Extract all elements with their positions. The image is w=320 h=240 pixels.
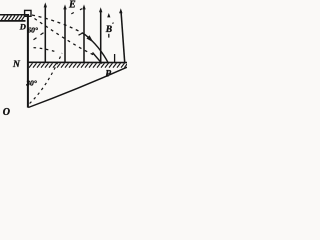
stray dash b2a <box>34 38 37 40</box>
mid surface line <box>28 61 128 63</box>
mid surface hatching <box>29 63 127 67</box>
trajectory C dashed flat <box>34 48 58 53</box>
solid line from O to right edge <box>28 67 127 107</box>
small dash near E <box>71 13 74 14</box>
svg-text:O: O <box>3 107 10 118</box>
svg-text:P: P <box>105 70 111 80</box>
field line L3 <box>83 7 85 62</box>
stray dash b2c <box>79 33 83 35</box>
arrowhead L4 <box>99 7 102 12</box>
pole (vertical rod D-N-O) <box>27 14 29 108</box>
B dashed arrow head <box>107 13 110 17</box>
speck near B <box>112 22 113 25</box>
svg-text:30°: 30° <box>25 78 37 87</box>
ceiling top line <box>0 14 29 16</box>
B arrow stem dot2 <box>108 34 110 38</box>
trajectory A solid end <box>85 34 109 63</box>
ceiling hatching <box>1 16 25 21</box>
arrowhead L2 <box>63 4 66 9</box>
ceiling bottom line <box>0 20 26 22</box>
arrowhead L3 <box>82 4 85 9</box>
field line L5 (slanted right edge) <box>121 11 125 62</box>
field line L4 <box>100 10 102 62</box>
svg-text:B: B <box>105 25 112 35</box>
small dash right of E <box>80 9 82 10</box>
short field segment L6 <box>114 54 116 62</box>
field line L1 <box>44 5 46 62</box>
arrowhead L1 <box>44 2 47 7</box>
trajectory A dashed part <box>32 15 85 34</box>
field line L2 <box>64 7 66 62</box>
svg-text:60°: 60° <box>27 26 38 35</box>
box at pole top <box>25 10 31 16</box>
dashed line from O (30 deg) <box>30 53 62 104</box>
svg-text:E: E <box>68 0 76 11</box>
trajectory B dashed <box>32 17 97 57</box>
svg-text:D: D <box>19 21 26 31</box>
stray dash b2b <box>41 33 44 35</box>
trajectory B solid end <box>93 53 103 64</box>
arrowhead L5 <box>119 8 122 13</box>
svg-text:N: N <box>12 60 21 70</box>
arrowhead on A <box>87 35 94 42</box>
